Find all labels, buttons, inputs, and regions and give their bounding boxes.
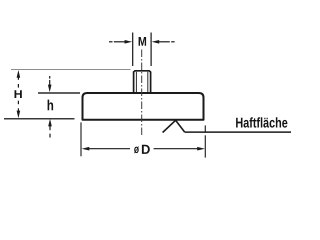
- H top extension line: [11, 69, 131, 71]
- leader line to Haftflaeche label: [185, 131, 291, 133]
- dimension h bottom arrow (points up): [48, 119, 52, 138]
- label h: [48, 100, 54, 111]
- diameter D dimension line with arrows: [82, 147, 205, 151]
- label M: [139, 37, 146, 46]
- h top extension line: [38, 92, 80, 94]
- dimension h top arrow (points down): [48, 76, 52, 92]
- bushing thread inner line left: [135, 72, 137, 93]
- diameter D left extension line: [80, 122, 82, 156]
- dimension M left arrow: [109, 40, 132, 44]
- label H: [15, 90, 22, 98]
- H/h bottom extension line: [4, 118, 75, 120]
- label D: [142, 145, 150, 154]
- dimension M extension line left: [132, 33, 134, 67]
- threaded bushing outline: [134, 71, 151, 93]
- label diameter sign: [134, 147, 139, 154]
- diameter D right extension line (dashed): [204, 125, 206, 157]
- dimension M right arrow: [152, 40, 175, 44]
- dimension M extension line right: [150, 33, 152, 67]
- vertical center line (dash-dot): [141, 50, 143, 137]
- surface finish symbol (checkmark on bottom face): [163, 120, 185, 132]
- pot body outline: [83, 93, 204, 120]
- dimension H vertical line with arrows: [17, 70, 21, 118]
- label Haftflaeche: [236, 117, 287, 127]
- bushing thread inner line right: [147, 72, 149, 93]
